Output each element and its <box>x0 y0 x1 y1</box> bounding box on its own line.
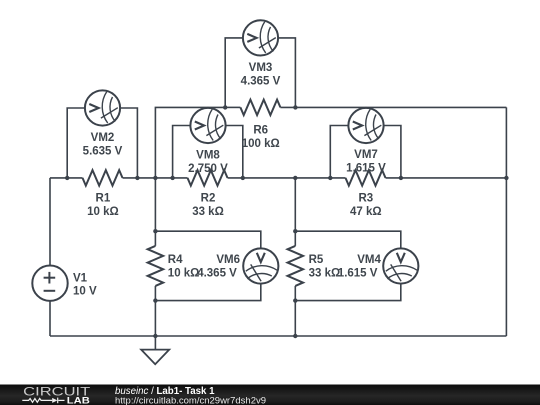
wire VM7 left lead <box>330 126 348 178</box>
node dot R5 bottom junction <box>293 334 297 338</box>
wire V1 bottom lead <box>49 301 51 336</box>
wire node B riser to R6 <box>155 107 225 246</box>
svg-text:VM4: VM4 <box>357 254 381 266</box>
svg-text:1.615 V: 1.615 V <box>346 163 386 175</box>
svg-text:http://circuitlab.com/cn29wr7d: http://circuitlab.com/cn29wr7dsh2v9 <box>115 396 266 405</box>
wire R5 branch bottom <box>294 286 296 336</box>
wire VM2 left lead <box>67 108 85 178</box>
wire VM4 bottom lead <box>295 283 401 300</box>
svg-text:R5: R5 <box>309 254 324 266</box>
wire VM6 bottom lead <box>155 283 260 300</box>
wire VM2 right lead <box>120 108 137 178</box>
ground <box>141 350 169 365</box>
wire main rail node C segment <box>228 177 346 179</box>
voltmeter VM4 <box>383 248 418 283</box>
svg-text:33 kΩ: 33 kΩ <box>309 267 341 279</box>
resistor R2 <box>188 170 228 186</box>
node dot VM6 box bottom <box>153 298 157 302</box>
wire VM7 right lead <box>384 126 401 178</box>
node dot right bus on rail <box>504 176 508 180</box>
node dot R5 branch on rail <box>293 176 297 180</box>
svg-text:VM6: VM6 <box>216 254 240 266</box>
wire VM3 right lead <box>278 38 295 108</box>
CircuitLab logo schematic <box>22 398 64 404</box>
voltmeter VM2 <box>85 90 120 125</box>
node dot VM6 box top <box>153 229 157 233</box>
wire R5 branch top <box>294 178 296 246</box>
svg-text:R6: R6 <box>253 125 268 137</box>
node dot VM2 left on rail <box>65 176 69 180</box>
wire right bus vertical <box>505 107 507 336</box>
wire main rail node A segment <box>50 177 83 179</box>
resistor R5 <box>288 246 304 286</box>
svg-text:R2: R2 <box>201 193 216 205</box>
node dot VM7 right on rail <box>399 176 403 180</box>
node dot VM8 left on rail <box>170 176 174 180</box>
resistor R6 <box>240 100 280 116</box>
wire main rail node D segment <box>386 177 507 179</box>
svg-text:LAB: LAB <box>67 395 91 405</box>
svg-text:1.615 V: 1.615 V <box>338 267 378 279</box>
resistor R4 <box>148 246 164 286</box>
wire top rail right of R6 <box>280 106 506 108</box>
svg-text:R1: R1 <box>96 193 111 205</box>
svg-text:VM7: VM7 <box>354 149 378 161</box>
resistor R3 <box>346 170 386 186</box>
svg-text:10 V: 10 V <box>73 286 97 298</box>
voltmeter VM8 <box>190 108 225 143</box>
svg-text:100 kΩ: 100 kΩ <box>242 138 280 150</box>
node dot R6 right <box>293 105 297 109</box>
svg-text:5.635 V: 5.635 V <box>83 145 123 157</box>
wire VM4 top lead <box>295 231 401 248</box>
wire VM3 left lead <box>225 38 243 108</box>
svg-text:R3: R3 <box>358 193 373 205</box>
svg-text:V1: V1 <box>73 272 88 284</box>
wire VM8 right lead <box>226 126 243 178</box>
svg-text:VM3: VM3 <box>249 62 273 74</box>
node dot R6 left <box>223 105 227 109</box>
voltmeter VM7 <box>348 108 383 143</box>
svg-text:33 kΩ: 33 kΩ <box>192 206 224 218</box>
footer bar <box>0 385 540 405</box>
svg-text:VM8: VM8 <box>196 150 220 162</box>
wire bottom ground rail <box>50 335 506 337</box>
wire V1 top lead <box>49 178 51 266</box>
node dot R4 branch on rail <box>153 176 157 180</box>
node dot VM2 right on rail <box>135 176 139 180</box>
node dot ground junction <box>153 334 157 338</box>
svg-text:10 kΩ: 10 kΩ <box>168 267 200 279</box>
svg-text:2.750 V: 2.750 V <box>188 163 228 175</box>
voltmeter VM6 <box>243 248 278 283</box>
wire VM6 top lead <box>155 231 260 248</box>
node dot VM4 box top <box>293 229 297 233</box>
node dot VM4 box bottom <box>293 298 297 302</box>
svg-text:4.365 V: 4.365 V <box>241 75 281 87</box>
voltmeter VM3 <box>243 20 278 55</box>
svg-text:47 kΩ: 47 kΩ <box>350 206 382 218</box>
svg-text:R4: R4 <box>168 254 183 266</box>
resistor R1 <box>83 170 123 186</box>
wire main rail node B segment <box>123 177 188 179</box>
svg-text:10 kΩ: 10 kΩ <box>87 206 119 218</box>
wire R6 left lead <box>225 106 240 108</box>
wire R4 bottom to ground rail <box>154 286 156 350</box>
node dot VM7 left on rail <box>328 176 332 180</box>
wire VM8 left lead <box>173 126 191 178</box>
svg-text:VM2: VM2 <box>91 132 115 144</box>
svg-text:4.365 V: 4.365 V <box>197 267 237 279</box>
node dot VM8 right on rail <box>241 176 245 180</box>
voltage source V1 <box>32 266 67 301</box>
